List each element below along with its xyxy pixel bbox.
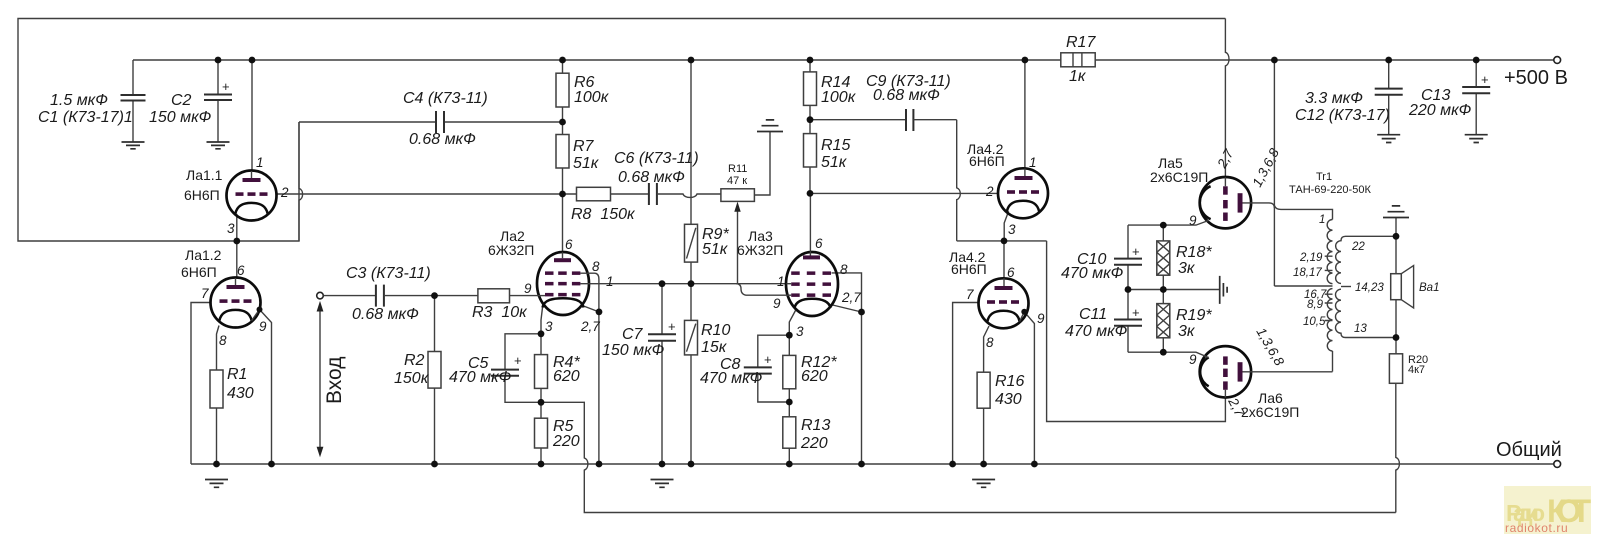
input arrow [317,301,324,457]
capacitor C1 [121,60,146,142]
resistor R20 [1389,338,1402,513]
svg-text:R17: R17 [1066,34,1096,51]
wire La2 cathode pin3 to C5/R4 [541,308,543,334]
wire screen node y283.7 [599,283,787,285]
svg-text:R8 150к: R8 150к [571,206,636,223]
label C1 [38,92,133,126]
label La5 [1150,155,1208,185]
label C2 [149,92,212,126]
svg-text:6Н6П: 6Н6П [951,261,987,277]
svg-text:3.3 мкФ: 3.3 мкФ [1305,90,1363,107]
ground C2 [207,142,230,149]
tube La6 2x6S19P [1200,346,1251,398]
label C12 [1295,90,1390,124]
label Ba1 [1419,282,1439,294]
label R18 [1176,244,1212,277]
wire +500V rail [133,59,1554,61]
svg-text:470 мкФ: 470 мкФ [1065,323,1128,340]
label C6 [614,150,699,186]
node junction R14-R15 / C9 [807,116,814,123]
svg-text:R11: R11 [728,163,747,175]
label C5 [449,355,512,386]
node junction R19 / La6 grid wire [1160,349,1167,356]
ground below C13 [1465,135,1488,143]
svg-text:620: 620 [801,368,828,385]
svg-text:6: 6 [815,236,823,251]
resistor R7 [556,122,569,252]
node junction C2 / +500V rail [215,57,222,64]
svg-text:100к: 100к [574,89,610,106]
svg-text:Tr1: Tr1 [1316,171,1332,183]
node junction tap13 / R20 [1393,334,1400,341]
svg-text:8,9: 8,9 [1307,299,1324,311]
label R20 [1408,354,1428,376]
wire La1.1 grid pin2 to R8 junction [277,193,577,195]
ground below R16 [972,480,995,488]
svg-text:+: + [514,353,522,368]
node junction C13 / rail [1473,57,1480,64]
node junction La3 pin8 line / ground rail [858,461,865,468]
wire input to C3 [323,295,376,297]
ground sideways right of R18 [1220,276,1227,304]
svg-text:Ла1.1: Ла1.1 [186,167,223,183]
resistor R18 wirewound [1157,225,1170,289]
wire La1.1 anode to rail [251,60,253,171]
svg-text:18,17: 18,17 [1293,267,1322,279]
ground inverted above R11 [757,120,783,132]
node junction La3 2,7 / pin8 wire [858,309,865,316]
wire primary mid tap [1274,285,1332,287]
wire La4.2 lower pin6 up [1003,241,1005,278]
label La2 [488,228,534,258]
label R4 [553,354,580,385]
svg-text:+: + [1132,244,1140,259]
wire C6 to R11 with dip hop over x691 [657,194,721,197]
label La4.2 lower [949,249,987,277]
svg-text:14,23: 14,23 [1355,282,1384,294]
svg-text:4к7: 4к7 [1408,364,1425,376]
svg-text:2,7: 2,7 [580,319,600,334]
label La4.2 upper [967,141,1005,169]
label R19 [1176,307,1212,340]
label C4 [403,90,488,148]
svg-text:radiokot.ru: radiokot.ru [1505,521,1568,535]
node junction R9 chain / rail [688,57,695,64]
svg-text:+: + [764,352,772,367]
wire feedback top to La5 cathode with hop over +500 rail [1225,19,1229,178]
label La1.2 [181,247,222,280]
svg-text:7: 7 [966,287,974,302]
svg-text:C6 (К73-11): C6 (К73-11) [614,150,699,167]
wire feedback bus from R4 bottom to R20 [541,402,1396,512]
svg-text:220: 220 [552,433,580,450]
svg-text:R19*: R19* [1176,307,1212,324]
svg-text:0.68 мкФ: 0.68 мкФ [352,306,419,323]
node junction La4.2 pin9 / ground rail [1031,461,1038,468]
wire mid node to side ground [1128,289,1220,291]
node junction R5 / ground rail [538,461,545,468]
resistor R12 [783,335,796,402]
label R16 [995,373,1024,408]
wire La5 grid [1128,221,1209,226]
svg-text:R1: R1 [227,366,247,383]
svg-text:0.68 мкФ: 0.68 мкФ [873,87,940,104]
wire La1.1 cathode pin3 down [236,214,238,241]
capacitor C7 electrolytic [648,284,676,464]
svg-text:C4 (К73-11): C4 (К73-11) [403,90,488,107]
node junction R15 / grid feed [807,190,814,197]
svg-text:+500 В: +500 В [1504,67,1568,89]
svg-text:C3 (К73-11): C3 (К73-11) [346,265,431,282]
node junction R12 / R13 / C8 [786,399,793,406]
svg-text:+: + [1481,72,1489,87]
resistor R1 [210,370,223,464]
capacitor C6 [649,183,657,205]
svg-text:150к: 150к [394,370,430,387]
wire La6 grid [1128,352,1209,357]
label C3 [346,265,431,323]
svg-text:С1 (К73-17)1: С1 (К73-17)1 [38,109,133,126]
label C11 [1065,306,1128,340]
label La3 [737,228,783,258]
tube La2 6Zh32P pentode [537,252,599,315]
node junction primary feed / rail [1271,57,1278,64]
svg-text:220: 220 [800,435,828,452]
svg-text:9: 9 [1189,352,1197,367]
svg-text:Ла1.2: Ла1.2 [185,247,222,263]
svg-text:51к: 51к [821,154,848,171]
label C9 [866,73,951,104]
svg-text:ТАН-69-220-50К: ТАН-69-220-50К [1289,184,1371,196]
svg-text:470 мкФ: 470 мкФ [449,369,512,386]
ground below C12 [1377,135,1400,143]
label Tr1 [1289,171,1371,196]
svg-text:8: 8 [219,333,227,348]
svg-text:R7: R7 [573,138,595,155]
node junction R18-R19 midpoint [1160,286,1167,293]
node junction R2 / ground rail [431,461,438,468]
label C10 [1061,251,1124,282]
tube La3 6Zh32P pentode [736,251,838,316]
resistor R10 [685,284,698,464]
wire La4.2 lower pin8 to R16 [984,326,989,372]
wire vertical x299 with hop over pin2 wire [299,122,303,241]
label C13 [1408,87,1472,119]
terminal Vhod input [317,292,324,299]
svg-text:3: 3 [796,324,804,339]
svg-text:9: 9 [259,319,267,334]
pin labels La1.2 [201,263,267,348]
svg-text:R16: R16 [995,373,1024,390]
svg-text:6Н6П: 6Н6П [969,153,1005,169]
svg-text:6: 6 [1007,265,1015,280]
label R17 [1066,34,1096,85]
wire feedback loop top border [18,19,1225,242]
wire La6 anode to primary bottom [1251,371,1333,373]
svg-text:430: 430 [227,385,254,402]
wire to La6 cathode [1047,241,1226,422]
pin labels La3 [773,236,861,339]
node junction La1.1 cathode / La1.2 anode [233,238,240,245]
wire ground rail [191,463,1554,465]
pin labels La4.2 upper [985,155,1037,237]
svg-text:47 к: 47 к [727,175,747,187]
svg-text:+: + [668,319,676,334]
speaker Ba1 [1391,266,1414,308]
svg-text:3к: 3к [1178,323,1196,340]
wire node y240.9 [957,240,1047,242]
capacitor C4 [436,111,444,133]
transformer primary tap ticks [1325,256,1333,320]
svg-text:Общий: Общий [1496,439,1562,461]
resistor R17 [1061,53,1095,67]
svg-text:6Н6П: 6Н6П [181,264,217,280]
node junction La2 cathode / C5 / R4 [538,330,545,337]
pin labels La4.2 lower [966,265,1045,350]
svg-text:C7: C7 [622,326,644,343]
svg-text:2х6С19П: 2х6С19П [1150,169,1208,185]
node junction La4.2 pin3-pin6 node [1001,238,1008,245]
node junction La4.2 pin7 / ground rail [949,461,956,468]
capacitor C10 electrolytic [1114,225,1142,289]
wire La4.2 lower pin7 to ground [953,303,979,465]
svg-text:Вход: Вход [323,356,346,404]
node junction R18 top / La5 grid wire [1160,222,1167,229]
node junction La1.1 anode / rail [249,57,256,64]
svg-text:3: 3 [1008,222,1016,237]
svg-text:6Ж32П: 6Ж32П [488,242,534,258]
transformer Tr1 secondary winding [1336,236,1352,337]
capacitor C12 [1375,60,1403,134]
svg-text:1: 1 [606,274,614,289]
svg-text:430: 430 [995,391,1022,408]
svg-text:9: 9 [773,296,781,311]
svg-text:+: + [222,79,230,94]
terminal Obschiy [1554,461,1561,468]
wire La4.2 upper pin3 down [1004,211,1008,241]
capacitor C2 electrolytic [204,60,232,142]
label R15 [821,137,850,171]
label R7 [573,138,600,172]
pin labels La1.1 [227,155,289,236]
label Vhod [323,356,346,404]
svg-text:R3 10к: R3 10к [472,304,528,321]
wire La4.2 upper pin1 to rail [1024,60,1026,169]
resistor R19 wirewound [1157,290,1170,353]
node junction R6 top / rail [559,57,566,64]
tube La5 2x6S19P [1200,177,1251,228]
node junction La2 cathode line / ground rail [596,461,603,468]
node junction La3 cathode / C8 / R12 [786,332,793,339]
ground below C7 [651,480,674,488]
svg-text:2: 2 [280,185,289,200]
svg-text:51к: 51к [702,241,729,258]
node junction R14 top / rail [807,57,814,64]
label C8 [700,356,763,387]
potentiometer R11 [721,132,770,284]
node junction C3 / R2 / R3 [431,292,438,299]
node junction R9 / R10 / screen node [688,280,695,287]
svg-text:6: 6 [565,237,573,252]
svg-text:2: 2 [985,184,994,199]
resistor R3 [435,289,541,303]
svg-text:R15: R15 [821,137,850,154]
transformer Tr1 primary winding [1327,220,1332,372]
svg-text:+: + [1132,305,1140,320]
label R13 [800,417,830,452]
capacitor C9 [810,109,957,131]
svg-text:0.68 мкФ: 0.68 мкФ [618,169,685,186]
wire La1.2 pin8 to R1 [217,326,220,371]
ground below R1 [205,480,228,488]
resistor R2 [428,296,441,464]
node junction C7 / screen node [659,280,666,287]
svg-text:1к: 1к [1069,68,1087,85]
node junction La4.2 lower pin9 [1021,309,1027,315]
terminal +500V [1554,57,1561,64]
svg-text:1.5 мкФ: 1.5 мкФ [50,92,108,109]
svg-text:C2: C2 [171,92,192,109]
rotated pin labels La5 [1189,145,1282,228]
node junction R4 / R5 / C5 / feedback [538,399,545,406]
svg-text:0.68 мкФ: 0.68 мкФ [409,131,476,148]
svg-text:R10: R10 [701,322,730,339]
capacitor C8 electrolytic [744,335,790,402]
svg-text:13: 13 [1354,323,1367,335]
resistor R9 [685,224,698,283]
transformer tap labels [1293,214,1384,335]
label R2 [394,352,430,387]
pin labels La2 [524,237,614,334]
node junction C10-C11 midpoint [1125,286,1132,293]
svg-text:51к: 51к [573,155,600,172]
svg-text:2,7: 2,7 [841,290,861,305]
wire grid feed La4.2 upper pin2 [810,192,998,194]
svg-text:8: 8 [592,259,600,274]
label R3 [472,304,528,321]
wire La1.2 grid pin7 to ground rail [191,303,211,465]
node junction C7 / ground rail [659,461,666,468]
svg-text:10,5: 10,5 [1303,316,1326,328]
wire primary top lead [1274,206,1332,220]
tube La1.1 6N6P triode [227,171,277,221]
label La6 [1241,390,1299,420]
label R5 [552,418,580,450]
label R1 [227,366,254,402]
resistor R4 [535,334,548,403]
svg-text:3: 3 [227,221,235,236]
node junction R7 / R8 / grid wire [559,191,566,198]
resistor R5 [535,402,548,464]
wire C4 coupling line y=122 [299,121,563,123]
wire La4.2 lower pin9 to ground [1024,312,1034,464]
label R12 [801,354,837,385]
svg-text:1: 1 [1029,155,1037,170]
capacitor C5 electrolytic [491,334,541,403]
label R11 [727,163,747,187]
resistor R8 [577,187,649,201]
svg-text:150 мкФ: 150 мкФ [149,109,212,126]
node junction La2 2,7 cathode [596,309,603,316]
svg-text:150 мкФ: 150 мкФ [602,342,665,359]
wire La2 cathode 2,7 to ground [584,284,599,464]
capacitor C13 electrolytic [1462,60,1490,134]
svg-text:1: 1 [256,155,264,170]
wire La3 cathode pin3 to R12 [789,311,795,336]
svg-text:220 мкФ: 220 мкФ [1408,102,1472,119]
svg-text:22: 22 [1351,241,1365,253]
node junction C12 / rail [1385,57,1392,64]
label +500V [1504,67,1568,89]
svg-text:470 мкФ: 470 мкФ [700,370,763,387]
tube La4.2 upper 6N6P triode [998,168,1048,218]
label R9 [702,226,729,258]
resistor R16 [977,372,990,464]
label La1.1 [184,167,223,203]
node junction La1.2 pin9 / ground rail [268,461,275,468]
svg-text:6Ж32П: 6Ж32П [737,242,783,258]
node junction La4.2 anode / rail [1022,57,1029,64]
wire speaker chain [1395,236,1397,337]
label R6 [574,74,610,106]
ground C1 [122,142,145,149]
svg-text:3к: 3к [1178,260,1196,277]
svg-text:100к: 100к [821,89,857,106]
wire secondary bottom to speaker line [1346,337,1397,339]
svg-text:R13: R13 [801,417,830,434]
svg-text:R2: R2 [404,352,425,369]
label R10 [701,322,730,356]
label C7 [602,326,665,359]
svg-text:8: 8 [840,262,848,277]
svg-text:2,19: 2,19 [1299,252,1323,264]
node junction R1 / ground rail [213,461,220,468]
tube La1.2 6N6P triode [211,278,261,328]
svg-text:1: 1 [777,274,785,289]
ground above speaker [1383,206,1409,236]
svg-text:С12 (К73-17): С12 (К73-17) [1295,107,1390,124]
label R14 [821,74,857,106]
wire secondary top to speaker line [1346,235,1397,237]
wire C9 down x956.7 with hop over pin2 wire [957,120,961,241]
resistor R13 [783,402,796,464]
node junction R10 / ground rail [688,461,695,468]
svg-text:9: 9 [524,281,532,296]
resistor R15 [804,120,817,194]
node junction R13 / ground rail [786,461,793,468]
resistor R6 [556,60,569,122]
rotated pin labels La6 [1189,325,1287,419]
node junction La1.2 pin9 [257,307,263,313]
watermark radiokot [1504,486,1591,535]
wire La5 anode merge [1251,203,1274,208]
wire B+ drop to primary top [1273,60,1275,286]
svg-text:6Н6П: 6Н6П [184,187,220,203]
svg-text:470 мкФ: 470 мкФ [1061,265,1124,282]
label R8 [571,206,636,223]
svg-text:7: 7 [201,286,209,301]
wire screen divider x691 from rail to R9 [690,60,692,224]
wire La1.2 anode pin6 up [236,241,238,278]
svg-text:Ва1: Ва1 [1419,282,1439,294]
resistor R14 [804,60,817,120]
svg-text:8: 8 [986,335,994,350]
node junction R16 / ground rail [980,461,987,468]
svg-text:2х6С19П: 2х6С19П [1241,404,1299,420]
tube La4.2 lower 6N6P triode [979,278,1029,328]
capacitor C3 [376,285,435,307]
svg-text:C11: C11 [1079,306,1107,323]
